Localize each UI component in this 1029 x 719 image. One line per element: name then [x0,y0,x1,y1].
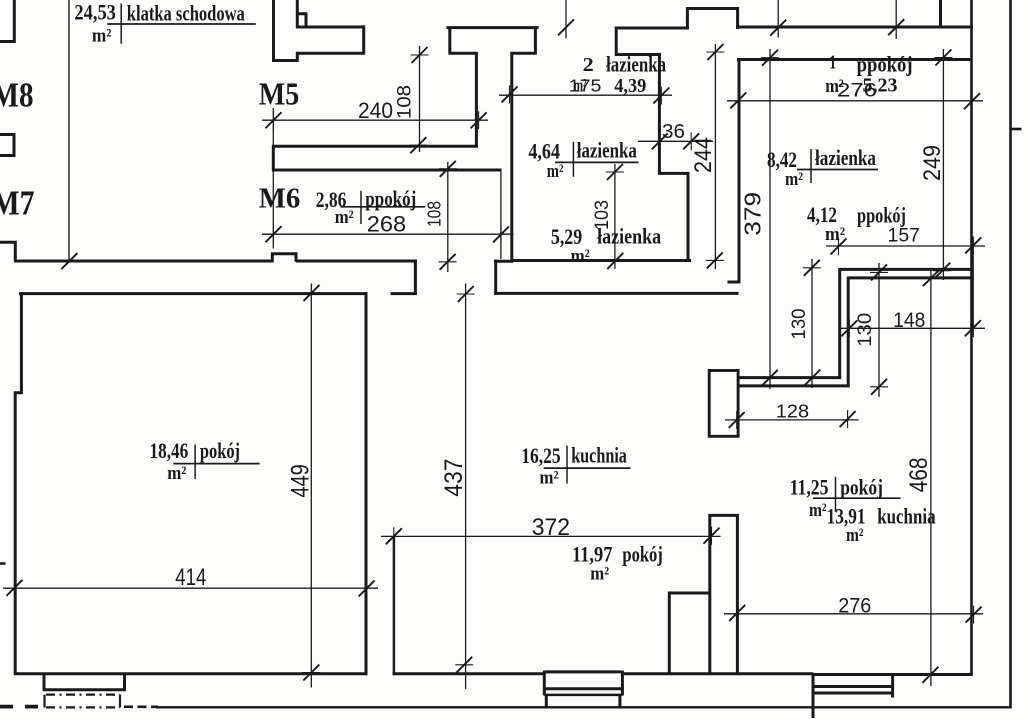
dim 103 tick top [606,164,624,180]
dim 268 tick left [266,225,282,243]
extension line x896 with tick [888,0,904,39]
label 2 lazienka 4,39 [573,51,666,97]
dim 249 line [942,49,944,280]
svg-text:108: 108 [425,201,445,227]
svg-text:m²: m² [785,169,803,190]
dim 130b line [878,263,880,397]
svg-text:m²: m² [540,468,559,489]
dim 108a line [419,46,421,152]
label M7 [0,184,35,223]
svg-text:108: 108 [395,85,416,119]
wall left step top [0,241,17,262]
svg-text:pokój: pokój [200,438,240,463]
dim 468 tick top [922,270,940,286]
dim 157 line [826,245,985,247]
extension line x778 with tick [770,0,786,38]
wall outer right x1010 [1009,0,1012,708]
svg-text:468: 468 [905,457,933,492]
dim 276 bottom tick right [966,606,982,624]
dim 249 tick bottom [933,263,951,279]
svg-text:240: 240 [358,98,393,123]
terrace dash-dot rect [45,695,121,708]
wall door jamb x393 [393,536,396,675]
svg-text:249: 249 [919,145,946,181]
dim 379 tick top [761,50,779,66]
svg-text:łazienka: łazienka [577,138,637,163]
balcony door big room [43,675,126,690]
wall staircase block left vertical [272,0,275,62]
balcony door center sill [544,671,622,696]
svg-text:M5: M5 [259,75,300,111]
wall top right section [736,26,973,29]
svg-text:130: 130 [789,309,810,340]
extension line x69 [68,0,70,262]
dim 108b line [447,162,449,272]
label 8,42 lazienka [767,145,878,190]
svg-text:kuchnia: kuchnia [571,443,627,468]
double wall lower horizontal pair [738,378,850,386]
dim 437 text [440,459,468,497]
dim 103 text [592,200,613,230]
svg-text:pokój: pokój [622,542,662,567]
extension line x566 with tick [558,0,574,39]
dim 103 line [614,164,616,269]
dim 36 tick left [652,132,668,150]
label 1 ppokoj 5,23 [825,52,912,98]
label klatka schodowa [74,0,255,47]
label 4,12 ppokoj [807,202,906,245]
svg-text:5,29: 5,29 [551,224,582,249]
wall staircase block outline [272,0,365,62]
dim 414 tick right [359,579,375,597]
dim 175 line [499,94,672,96]
svg-text:m²: m² [547,161,564,182]
dim 437 tick top [457,286,475,302]
tick on corridor wall x69 [61,253,77,269]
wall top T bar [447,26,539,29]
svg-text:11,25: 11,25 [790,474,829,499]
dim 276 bottom text [838,595,871,618]
wall bottom second segment [393,672,544,675]
dim 36 line [638,140,713,142]
wall right inner x971 [970,0,973,675]
svg-text:m²: m² [825,76,844,97]
dim 449 line [310,284,312,688]
dim 36 text [662,120,685,143]
dim 244 text [690,137,717,173]
svg-text:130: 130 [855,313,876,347]
dim 108b tick bottom [439,254,457,270]
dim 130b text [855,313,876,347]
svg-text:276: 276 [838,595,871,618]
dim 276 top text [837,81,877,102]
svg-text:4,64: 4,64 [528,138,560,163]
svg-text:m²: m² [571,246,590,267]
dim 276 bottom tick left [729,604,745,622]
dim 128 text [776,400,809,421]
label 5,29 lazienka [551,224,661,268]
dim 437 tick bottom [455,657,473,673]
label 16,25 kuchnia [521,443,630,489]
wall staircase small notch square [297,13,307,28]
dim 108a text [395,85,416,119]
wall big room right x366 [365,292,368,675]
wall T left leg [449,27,478,147]
dim 240 text [358,98,393,123]
wall y293 left segment [19,292,368,295]
wall stub top x940 [939,0,942,29]
double wall top horizontal pair [840,269,973,278]
label 11,97 pokoj [572,542,663,585]
dim 437 line [465,284,467,690]
dim 249 text [919,145,946,181]
svg-text:M8: M8 [0,76,34,115]
dim 372 text [532,514,570,541]
svg-text:m²: m² [809,500,827,521]
svg-text:414: 414 [175,564,206,591]
outer line bottom [156,706,1012,708]
wall bathroom bottom y260 [511,259,692,262]
svg-text:36: 36 [662,120,685,143]
dim 449 tick bottom [302,665,320,681]
wall bottom right segment [812,673,973,676]
dim 108b tick top [439,161,457,177]
dim 108b text [425,201,445,227]
dim 372 line [381,535,721,537]
dim 128 tick right [840,410,856,428]
dim 128 line [725,419,859,421]
dim 276 top tick left [730,91,746,109]
dim 449 tick top [303,285,321,301]
svg-text:m²: m² [590,564,609,585]
wall big room bottom [14,672,367,675]
svg-text:148: 148 [893,309,925,332]
dim 36 tick right [683,132,699,150]
dim 108a tick top [411,47,429,63]
svg-text:łazienka: łazienka [815,145,876,170]
dim 449 text [286,464,314,498]
left edge top rect fragment [0,0,16,43]
dim 276 top tick right [964,92,980,110]
dim 103 tick bottom [606,253,624,269]
svg-text:1: 1 [829,52,836,74]
dim 414 text [175,564,206,591]
dim 468 text [905,457,933,492]
dim 414 tick left [7,579,23,597]
label 13,91 kuchnia [827,504,936,547]
wall kitchen top-left corner [494,260,513,295]
dim 148 text [893,309,925,332]
dim 244 tick top [706,44,724,60]
dim 244 line [714,44,716,269]
svg-text:18,46: 18,46 [150,438,189,463]
left edge small square fragment [0,133,15,157]
wall M5 M6 band top [272,145,478,148]
dim 128 tick left [729,411,745,429]
balcony right outline [813,675,893,719]
label 2,86 ppokoj [316,186,426,228]
svg-text:ppokój: ppokój [857,203,906,228]
svg-text:5,23: 5,23 [863,74,898,96]
double wall vertical pair [840,268,849,387]
wall x415 [414,260,417,296]
wall corridor y261 with notch [14,253,417,262]
dim 268 text [367,212,406,237]
dim 268 line [262,233,514,235]
dim 175 tick right [653,87,669,105]
svg-text:372: 372 [532,514,570,541]
svg-text:157: 157 [888,226,920,247]
dim 148 line [840,327,985,329]
dim 268 tick right [493,225,509,243]
svg-text:m²: m² [573,75,586,96]
dim 130a line [811,259,813,388]
wall T right leg [511,27,537,55]
dim 157 tick left [831,237,847,255]
dim 379 tick bottom [761,370,779,386]
dim 414 line [3,587,378,589]
dim 468 tick bottom [921,667,939,683]
dim 130b tick top [870,264,888,280]
dim 240 tick right [471,111,487,129]
dim 468 line [930,269,932,686]
outer line bottom dashes left [0,705,48,709]
svg-text:437: 437 [440,459,468,497]
small dashes right of terrace [124,705,158,708]
dim 249 tick top [934,50,952,66]
balcony center lower posts [546,696,620,707]
svg-text:2: 2 [583,54,594,76]
wall bottom third segment [622,672,813,675]
svg-text:kuchnia: kuchnia [877,504,935,529]
dim 372 tick left [386,527,402,545]
svg-text:379: 379 [740,192,766,236]
label M5 [259,75,300,111]
wall M5 M6 band left [272,145,275,171]
wall room1 left x739 [728,58,740,284]
svg-text:klatka schodowa: klatka schodowa [127,1,245,26]
dim 130a tick bottom [803,370,821,386]
dim 130a tick top [803,260,821,276]
svg-text:449: 449 [286,464,314,498]
kitchen column B right [736,514,739,675]
svg-text:128: 128 [776,400,809,421]
dim 276 top line [727,100,983,102]
svg-text:24,53: 24,53 [74,0,116,25]
svg-text:łazienka: łazienka [606,51,666,76]
dim 130a text [789,309,810,340]
dim 175 tick left [502,85,518,103]
svg-text:M7: M7 [0,184,35,223]
svg-text:m²: m² [846,525,864,546]
svg-text:m²: m² [335,207,354,228]
svg-text:268: 268 [367,212,406,237]
wall bathroom-block left [510,52,513,262]
dim 108a tick bottom [409,137,427,153]
dim 240 tick left [266,111,282,129]
svg-text:łazienka: łazienka [597,224,661,249]
extension line x973 [972,237,974,337]
wall stub right edge y129 [1010,128,1022,131]
dim 130b tick bottom [870,379,888,395]
dim 276 bottom line [724,613,983,615]
dim 244 tick bottom [706,252,724,268]
wall big room left [14,292,23,673]
wall kitchen top y293 [494,292,738,295]
wall y293 door jamb segment [391,292,417,295]
wall M5 M6 band bottom [272,169,502,172]
svg-text:m²: m² [825,224,845,245]
svg-text:ppokój: ppokój [857,52,913,77]
dim 379 text [740,192,766,236]
label 4,64 lazienka [528,138,638,182]
wall bathroom shaft [658,53,690,262]
label M6 [259,183,301,214]
kitchen column A [668,514,739,675]
svg-text:m²: m² [167,463,186,484]
extension line x500 [500,170,502,259]
label 18,46 pokoj [150,438,260,484]
wall bathroom2 top corner [615,27,689,56]
dim 240 line [262,119,488,121]
wall notch top right [686,7,739,29]
label 11,25 pokoj [790,474,901,521]
dim 175 text [569,75,602,95]
svg-text:244: 244 [690,137,717,173]
svg-text:pokój: pokój [840,475,883,500]
svg-text:4,39: 4,39 [614,75,646,97]
svg-text:M6: M6 [259,183,301,214]
svg-text:m²: m² [92,26,112,47]
dim 379 line [769,49,771,389]
dim 157 text [888,226,920,247]
dim 148 tick left [841,319,857,337]
block 128 outline [709,371,738,437]
label M8 [0,76,34,115]
dim 372 tick right [704,527,720,545]
extension line x273 [272,108,274,249]
svg-text:16,25: 16,25 [521,443,561,468]
dim 157 tick right [965,236,981,254]
dim 148 tick right [965,319,981,337]
left edge small dash y563 [0,562,6,565]
wall room1 top y59 [737,58,973,61]
